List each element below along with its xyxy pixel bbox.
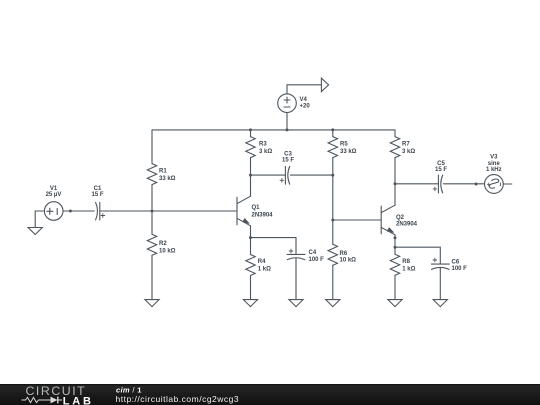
wire Q1 emitter node to C4: [251, 238, 297, 255]
svg-text:33 kΩ: 33 kΩ: [340, 149, 357, 155]
capacitor C3: [284, 166, 286, 184]
svg-text:Q2: Q2: [396, 215, 405, 221]
node dot rail R5: [331, 128, 334, 131]
svg-text:3 kΩ: 3 kΩ: [402, 149, 415, 155]
capacitor C6: [431, 263, 449, 265]
wire R7 rail drop: [394, 130, 396, 137]
svg-text:V4: V4: [300, 97, 308, 103]
svg-text:10 kΩ: 10 kΩ: [340, 258, 357, 264]
resistor R6: [328, 244, 337, 265]
svg-text:+20: +20: [300, 104, 311, 110]
wire C5 left: [395, 183, 438, 185]
ground under R2: [145, 300, 159, 307]
svg-text:Q1: Q1: [252, 205, 261, 211]
wire base node to Q2: [333, 219, 381, 221]
wire V4 to rail: [286, 113, 288, 130]
node dot V1 output: [69, 210, 72, 213]
wire Q1 emitter node to R4: [250, 238, 252, 255]
wire V4 top to flag: [287, 85, 321, 94]
node dot rail V4: [286, 128, 289, 131]
capacitor C5: [437, 175, 439, 193]
resistor R2: [147, 234, 156, 255]
wire tap to R2: [151, 211, 153, 234]
svg-text:R2: R2: [159, 241, 167, 247]
wire V3 right stub: [503, 183, 512, 185]
wire Q2 emitter node to C6: [395, 247, 440, 264]
node dot divider tap: [151, 210, 154, 213]
wire R4 to ground: [250, 276, 252, 300]
plus sign C3: [280, 178, 284, 182]
wire R7 to C5 node: [394, 158, 396, 184]
ground under V1: [28, 228, 42, 235]
transistor Q1: [236, 197, 238, 225]
svg-text:25 µV: 25 µV: [46, 192, 62, 198]
node dot C3-R5: [331, 174, 334, 177]
svg-text:1 kHz: 1 kHz: [486, 167, 502, 173]
svg-text:R7: R7: [402, 141, 410, 147]
capacitor C4: [287, 253, 305, 255]
svg-text:LAB: LAB: [63, 395, 94, 405]
logo resistor-diode glyph: [22, 397, 51, 402]
plus sign C4: [289, 249, 293, 253]
node dot Q1 emitter: [249, 236, 252, 239]
svg-text:1 kΩ: 1 kΩ: [402, 266, 415, 272]
svg-text:2N3904: 2N3904: [396, 222, 418, 228]
ground under C4: [289, 300, 303, 307]
wire V1 left to ground: [35, 211, 44, 227]
svg-text:http://circuitlab.com/cg2wcg3: http://circuitlab.com/cg2wcg3: [116, 394, 240, 404]
voltage source V3: [485, 175, 504, 194]
svg-text:C6: C6: [452, 259, 460, 265]
wire left column upper: [151, 130, 153, 164]
svg-text:R3: R3: [259, 141, 267, 147]
voltage source V4: [278, 94, 297, 113]
wire R1 to tap: [151, 185, 153, 211]
wire R2 to ground: [151, 255, 153, 299]
node dot Q2 collector C5: [394, 182, 397, 185]
junction dots: [69, 128, 478, 248]
wire V1 to C1: [63, 210, 94, 212]
node dot Q2 emitter branch: [394, 246, 397, 249]
svg-text:33 kΩ: 33 kΩ: [159, 176, 176, 182]
wire C3 node to Q1 collector: [250, 175, 252, 196]
power flag arrow: [321, 78, 328, 91]
svg-text:100 F: 100 F: [309, 257, 325, 263]
wire C1 to Q1 base: [100, 210, 237, 212]
plus sign C6: [433, 258, 437, 262]
svg-text:R5: R5: [340, 141, 348, 147]
svg-text:R1: R1: [159, 168, 167, 174]
wire R6 to ground: [332, 265, 334, 299]
svg-text:100 F: 100 F: [452, 266, 468, 272]
svg-text:10 kΩ: 10 kΩ: [159, 248, 176, 254]
capacitor C1: [96, 202, 98, 220]
wire Q2 emitter node to R8: [394, 247, 396, 254]
resistor R8: [390, 254, 399, 275]
wire C4 to ground: [295, 258, 297, 299]
resistor R7: [390, 137, 399, 158]
ground under R8: [388, 300, 402, 307]
ground under R4: [243, 300, 257, 307]
resistor R4: [246, 255, 255, 276]
wire base node down to R6: [332, 220, 334, 244]
node dot Q2 base: [331, 219, 334, 222]
svg-text:C4: C4: [309, 250, 317, 256]
svg-text:V3: V3: [490, 155, 498, 161]
wire R5 rail drop: [332, 130, 334, 137]
label V1: [46, 152, 502, 199]
wire R8 to ground: [394, 275, 396, 299]
plus sign C1: [101, 178, 438, 262]
wire R3 to C3 node: [250, 158, 252, 176]
wire C3 node down to base node: [332, 175, 334, 220]
node dot rail R3: [249, 128, 252, 131]
svg-text:R8: R8: [402, 259, 410, 265]
svg-text:1 kΩ: 1 kΩ: [258, 266, 271, 272]
wire C3 right: [290, 174, 332, 176]
wire C6 to ground: [439, 268, 441, 300]
svg-text:R6: R6: [340, 251, 348, 257]
wire top rail: [152, 129, 395, 131]
wire C5 right to V3: [443, 183, 484, 185]
svg-text:3 kΩ: 3 kΩ: [259, 149, 272, 155]
node dot R3-C3: [249, 174, 252, 177]
wire R5 to C3 node: [332, 158, 334, 176]
node dot V3 input: [475, 183, 478, 186]
svg-text:R4: R4: [258, 259, 266, 265]
plus sign C5: [433, 187, 437, 191]
voltage source V1: [44, 202, 63, 221]
svg-text:15 F: 15 F: [282, 158, 294, 164]
ground under C6: [433, 300, 447, 307]
node dot Q2 emitter: [394, 236, 397, 239]
resistor R3: [246, 137, 255, 158]
svg-text:2N3904: 2N3904: [252, 213, 274, 219]
svg-text:15 F: 15 F: [91, 192, 103, 198]
wire C3 left: [251, 174, 286, 176]
resistor R5: [328, 137, 337, 158]
resistor R1: [147, 164, 156, 185]
wire R3 rail drop: [250, 130, 252, 137]
wire C5 node to Q2 collector: [394, 184, 396, 205]
svg-text:15 F: 15 F: [435, 167, 447, 173]
transistor Q2: [380, 206, 382, 234]
ground under R6: [326, 300, 340, 307]
